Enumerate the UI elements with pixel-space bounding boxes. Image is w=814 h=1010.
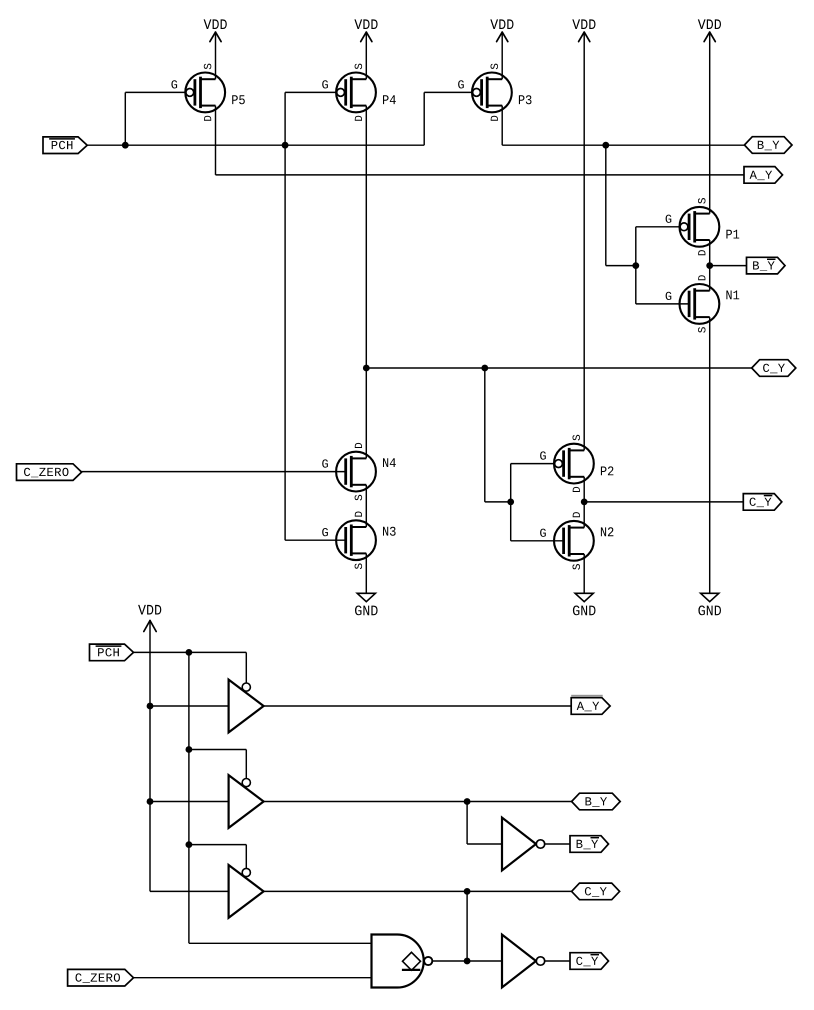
junction PCH/P4 gate bbox=[282, 142, 289, 149]
junction C_Ybar row bbox=[464, 958, 471, 965]
power flag VDD (P5) bbox=[204, 19, 227, 79]
label C_ZERO (top) bbox=[17, 464, 82, 481]
power flag VDD (P2 column) bbox=[572, 19, 595, 450]
wire P4 gate and N3 gate column bbox=[285, 92, 346, 540]
wire C_Y net horizontal bbox=[366, 367, 751, 369]
wire C_Ybar inverter output bbox=[545, 960, 570, 962]
wire P1 N1 gate column bbox=[636, 227, 689, 304]
nand gate U6 (open-drain) bbox=[372, 935, 433, 988]
label B_Y (bottom) bbox=[572, 793, 621, 810]
junction B_Ybar node bbox=[706, 262, 713, 269]
tri-state buffer U2 (B_Y) bbox=[229, 775, 264, 828]
junction C_Y origin bbox=[363, 365, 370, 372]
wire buffer2 output to B_Y bbox=[264, 801, 572, 803]
wire P3 drain to B_Y bbox=[501, 106, 503, 146]
wire P2 N2 gate column bbox=[511, 464, 564, 541]
wire C_Ybar to label bbox=[584, 501, 743, 503]
junction VDD/buffer2 input bbox=[147, 798, 154, 805]
junction PCH rail/buffer2 enable bbox=[186, 746, 193, 753]
wire N3 source to GND bbox=[365, 553, 367, 593]
label B_Y (top) bbox=[744, 137, 792, 154]
junction gate column/B_Y tap bbox=[632, 262, 639, 269]
wire N2 source to GND bbox=[583, 554, 585, 593]
wire buffer3 output to C_Y bbox=[264, 890, 572, 892]
junction VDD/buffer1 input bbox=[147, 703, 154, 710]
pmos P3 bbox=[458, 64, 531, 121]
wire P1 drain to N1 drain bbox=[709, 240, 711, 291]
junction PCH rail/buffer3 enable bbox=[186, 841, 193, 848]
junction B_Y/B_Ybar tap bbox=[464, 798, 471, 805]
nmos N4 bbox=[322, 443, 396, 501]
wire buffer1 input bbox=[150, 705, 229, 707]
label C_Y (bottom) bbox=[572, 883, 620, 900]
inverter U5 (C_Ybar) bbox=[502, 935, 545, 988]
wire C_Y to P2/N2 gates bbox=[485, 368, 511, 502]
junction PCH/P5 gate bbox=[122, 142, 129, 149]
label C_Ybar (bottom) bbox=[570, 953, 609, 970]
junction C_Ybar node bbox=[581, 499, 588, 506]
wire B_Ybar to label bbox=[710, 265, 747, 267]
wire C_ZERO net bbox=[80, 471, 346, 473]
power flag VDD (P3) bbox=[490, 19, 513, 79]
wire C_Y down to C_Ybar row bbox=[466, 891, 468, 961]
ground GND (N1) bbox=[698, 593, 721, 615]
junction B_Y / P1 N1 gate tap bbox=[602, 142, 609, 149]
tri-state buffer U3 (C_Y) bbox=[229, 865, 264, 918]
wire N1 source to GND bbox=[709, 317, 711, 593]
wire NAND output bbox=[433, 960, 502, 962]
power flag VDD (P4) bbox=[354, 19, 377, 79]
wire B_Y net horizontal bbox=[502, 144, 744, 146]
label C_ZERO (bottom) bbox=[68, 969, 134, 986]
wire PCH net horizontal bbox=[87, 144, 424, 146]
nmos N1 bbox=[666, 275, 740, 333]
nmos N2 bbox=[540, 512, 613, 570]
wire B_Ybar inverter input bbox=[467, 802, 502, 845]
wire P5 drain to A_Y bbox=[215, 106, 217, 175]
wire buffer2 input bbox=[150, 801, 229, 803]
wire N4 source to N3 drain bbox=[365, 485, 367, 527]
tri-state buffer U1 (A_Y) bbox=[229, 680, 264, 733]
junction PCH branch bbox=[186, 649, 193, 656]
label PCH (top) bbox=[43, 137, 87, 154]
wire PCH from label bbox=[134, 651, 189, 653]
wire P4 drain to N4 drain bbox=[365, 106, 367, 459]
wire B_Ybar inverter output bbox=[545, 843, 570, 845]
label C_Ybar (top) bbox=[743, 494, 782, 511]
wire P2 drain to N2 drain bbox=[583, 477, 585, 528]
power flag VDD (P1 column) bbox=[698, 19, 721, 213]
label B_Ybar (bottom) bbox=[570, 836, 609, 853]
wire C_ZERO to NAND bbox=[134, 977, 372, 979]
junction gate column/C_Y tap bbox=[507, 499, 514, 506]
wire buffer3 enable bbox=[189, 845, 246, 869]
label PCH (bottom) bbox=[90, 644, 134, 661]
label B_Ybar (top) bbox=[747, 257, 786, 274]
wire buffer2 enable bbox=[189, 750, 246, 779]
junction C_Y / P2 N2 gate tap bbox=[481, 365, 488, 372]
junction C_Y/NAND tap bbox=[464, 888, 471, 895]
wire P3 gate riser bbox=[424, 92, 472, 145]
pmos P1 bbox=[666, 198, 740, 255]
pmos P4 bbox=[322, 64, 396, 121]
wire buffer1 output to A_Y bbox=[264, 705, 572, 707]
wire PCH vertical rail bbox=[189, 652, 372, 943]
pmos P2 bbox=[540, 435, 613, 492]
ground GND (N2) bbox=[573, 593, 596, 615]
wire B_Y to P1/N1 gates bbox=[606, 145, 636, 265]
power flag VDD (bottom) bbox=[138, 605, 229, 892]
pmos P5 bbox=[171, 64, 244, 121]
wire P5 gate bbox=[125, 92, 186, 145]
label C_Y (top) bbox=[752, 360, 796, 377]
wire A_Y net horizontal bbox=[216, 174, 745, 176]
inverter U4 (B_Ybar) bbox=[502, 818, 545, 871]
label A_Y (top) bbox=[744, 167, 783, 184]
nmos N3 bbox=[322, 512, 395, 570]
wire PCH to buffer1 enable bbox=[189, 652, 246, 683]
ground GND (N3) bbox=[355, 593, 378, 615]
label A_Y (bottom) bbox=[571, 695, 610, 715]
